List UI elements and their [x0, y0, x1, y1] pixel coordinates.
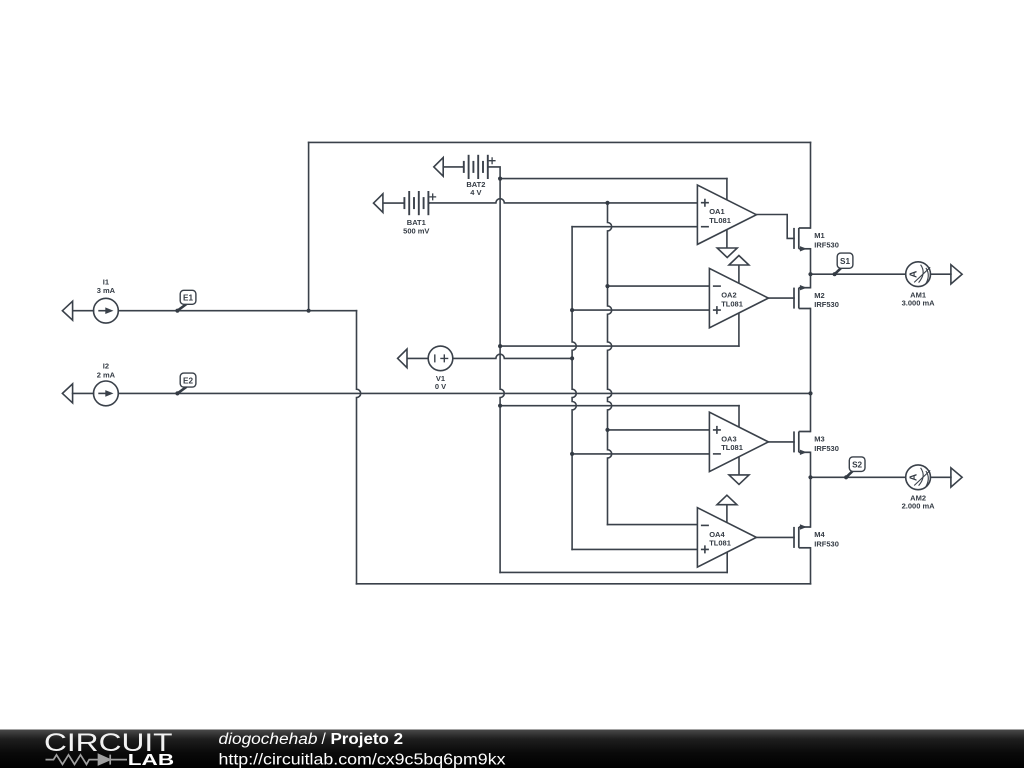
wire 4V rail bottom horizontal to OA4 V-: [500, 571, 727, 573]
svg-text:IRF530: IRF530: [814, 300, 839, 309]
node bus / OA2 - junction: [605, 284, 609, 288]
svg-text:M2: M2: [814, 291, 824, 300]
current source I2: [62, 381, 118, 406]
wire OA3 - input row: [572, 453, 709, 455]
node BAT2+ / 4V rail junction: [498, 177, 502, 181]
label OA3: [721, 434, 743, 452]
flag E1: [175, 290, 196, 313]
pin OA2 V-: [738, 313, 740, 346]
svg-text:E2: E2: [183, 376, 193, 385]
label I2: [97, 362, 116, 380]
wire BAT1 net to OA1 + input (hop over 4V rail): [428, 199, 697, 203]
pin OA1 V+: [726, 179, 728, 201]
wire I1 row horizontal (E1 net): [73, 310, 357, 312]
svg-text:M4: M4: [814, 530, 825, 539]
pin OA3 V+: [738, 406, 740, 428]
wire OA1 output to M1 gate: [756, 215, 794, 239]
svg-text:3.000 mA: 3.000 mA: [902, 299, 936, 308]
wire OA3 output to M3 gate: [768, 441, 794, 443]
wire left outer vertical: [308, 142, 310, 310]
svg-text:2 mA: 2 mA: [97, 370, 116, 379]
transistor M4: [794, 524, 811, 548]
battery BAT2: [434, 155, 496, 179]
wire OA2 output to M2 gate: [768, 297, 794, 299]
wire OA2 + input row: [572, 309, 709, 311]
wire OA2 V- supply row: [500, 345, 739, 347]
wire M3 source to node S2: [810, 452, 812, 477]
wire feedback bus vertical x=572.1 with hops: [572, 227, 576, 550]
svg-text:diogochehab: diogochehab: [219, 731, 318, 748]
svg-text:3 mA: 3 mA: [97, 286, 116, 295]
label OA1: [709, 207, 731, 225]
label OA2: [721, 291, 743, 309]
wire bottom rail: [357, 583, 811, 585]
svg-text:A: A: [909, 271, 920, 278]
voltage source V1: [398, 346, 453, 371]
ammeter AM1: [906, 262, 931, 287]
flag S2: [844, 457, 865, 480]
node feedback bus / OA3 - junction: [570, 452, 574, 456]
transistor M1: [794, 228, 811, 252]
wire node S2 to M4 source: [810, 477, 812, 527]
wire M2 drain down to E2 node: [810, 309, 812, 394]
wire OA4 - input row: [608, 524, 698, 526]
wire OA4 + input row: [572, 548, 697, 550]
svg-text:TL081: TL081: [721, 299, 743, 308]
flag V+ above OA2: [729, 256, 749, 284]
svg-text:I2: I2: [103, 362, 109, 371]
wire top rail (E1 net): [309, 141, 811, 143]
battery BAT1: [374, 191, 437, 215]
wire vertical x=356.5 with hop at E2 crossing: [357, 311, 361, 584]
svg-text:OA2: OA2: [721, 291, 736, 300]
wire M4 drain down to bottom rail: [810, 548, 812, 584]
node S1 junction: [808, 272, 812, 276]
svg-text:/: /: [322, 731, 327, 748]
wire S2 output row: [811, 476, 951, 478]
svg-text:500 mV: 500 mV: [403, 227, 429, 236]
svg-text:IRF530: IRF530: [814, 444, 839, 453]
footer bar: [0, 730, 1024, 769]
node bus / OA3 + junction: [605, 428, 609, 432]
svg-text:OA1: OA1: [709, 207, 724, 216]
wire M1 drain vertical: [810, 142, 812, 228]
op-amp OA2: [709, 268, 768, 327]
label M3: [814, 435, 839, 453]
svg-text:M3: M3: [814, 435, 824, 444]
op-amp OA1: [697, 185, 756, 244]
node feedback bus / OA2 + junction: [570, 308, 574, 312]
svg-text:IRF530: IRF530: [814, 240, 839, 249]
label M1: [814, 231, 839, 249]
wire M1 source to node S1: [810, 249, 812, 274]
svg-text:Projeto 2: Projeto 2: [331, 731, 404, 748]
pin OA4 V-: [726, 552, 728, 572]
op-amp OA3: [709, 412, 768, 471]
wire 4V vertical rail x=500.1 with hop at E2: [500, 179, 504, 573]
wire OA1 - input from feedback bus corner: [572, 226, 697, 228]
wire I2 row horizontal (E2 net): [73, 392, 811, 394]
svg-text:IRF530: IRF530: [814, 539, 839, 548]
junction dots: [307, 177, 813, 480]
op-amp OA4: [697, 508, 756, 567]
wire S1 output row: [811, 273, 951, 275]
svg-text:2.000 mA: 2.000 mA: [902, 502, 936, 511]
wire OA3 V+ supply row: [500, 405, 739, 407]
node BAT1 bus junction: [605, 201, 609, 205]
node E2 / M2-M3 junction: [808, 391, 812, 395]
flag V+ above OA4: [717, 495, 737, 523]
wire E2 node to M3 drain: [810, 393, 812, 431]
svg-text:TL081: TL081: [709, 539, 731, 548]
logo resistor-diode glyph: [46, 755, 128, 765]
flag V- below OA3: [729, 457, 749, 485]
wire node S1 to M2 source: [810, 274, 812, 288]
svg-text:OA4: OA4: [709, 530, 725, 539]
svg-text:TL081: TL081: [721, 443, 743, 452]
label AM1: [902, 290, 936, 307]
wire OA3 + input row: [608, 429, 710, 431]
wire 4V rail top horizontal to OA1 V+: [500, 178, 727, 180]
wire OA4 output to M4 gate: [756, 536, 794, 538]
flag S1: [833, 253, 853, 276]
svg-text:OA3: OA3: [721, 434, 736, 443]
node S2 junction: [808, 475, 812, 479]
svg-text:S1: S1: [840, 257, 850, 266]
wire V1 positive lead to feedback bus (hop over 4V rail): [453, 354, 572, 358]
svg-text:E1: E1: [183, 294, 193, 303]
svg-text:0 V: 0 V: [435, 382, 446, 391]
current source I1: [62, 298, 118, 323]
svg-text:S2: S2: [852, 461, 862, 470]
transistor M2: [794, 285, 811, 309]
label BAT1: [403, 218, 429, 235]
flag E2: [175, 373, 196, 395]
svg-text:4 V: 4 V: [470, 188, 481, 197]
ammeter AM2: [906, 465, 931, 490]
flag V- below OA1: [717, 230, 737, 258]
flag output right of AM2: [951, 468, 962, 487]
wire bus vertical x=607.5 with hops: [608, 203, 612, 525]
svg-text:LAB: LAB: [128, 752, 174, 768]
node 4V rail / OA3 V+ junction: [498, 404, 502, 408]
label I1: [97, 278, 116, 296]
node E1 / left rail junction: [307, 309, 311, 313]
wire OA2 - input row: [608, 285, 710, 287]
svg-text:A: A: [909, 474, 920, 481]
label M4: [814, 530, 839, 548]
label OA4: [709, 530, 731, 548]
svg-text:TL081: TL081: [709, 216, 731, 225]
label AM2: [902, 494, 936, 511]
label V1: [435, 374, 446, 391]
node 4V rail / OA2 V- junction: [498, 344, 502, 348]
transistor M3: [794, 431, 811, 455]
flag output right of AM1: [951, 265, 962, 284]
svg-text:M1: M1: [814, 231, 824, 240]
svg-text:http://circuitlab.com/cx9c5bq6: http://circuitlab.com/cx9c5bq6pm9kx: [219, 751, 506, 768]
wire BAT2 positive lead to rail corner: [488, 167, 500, 179]
label M2: [814, 291, 839, 309]
node feedback bus / V1 junction: [570, 356, 574, 360]
label BAT2: [466, 180, 485, 197]
